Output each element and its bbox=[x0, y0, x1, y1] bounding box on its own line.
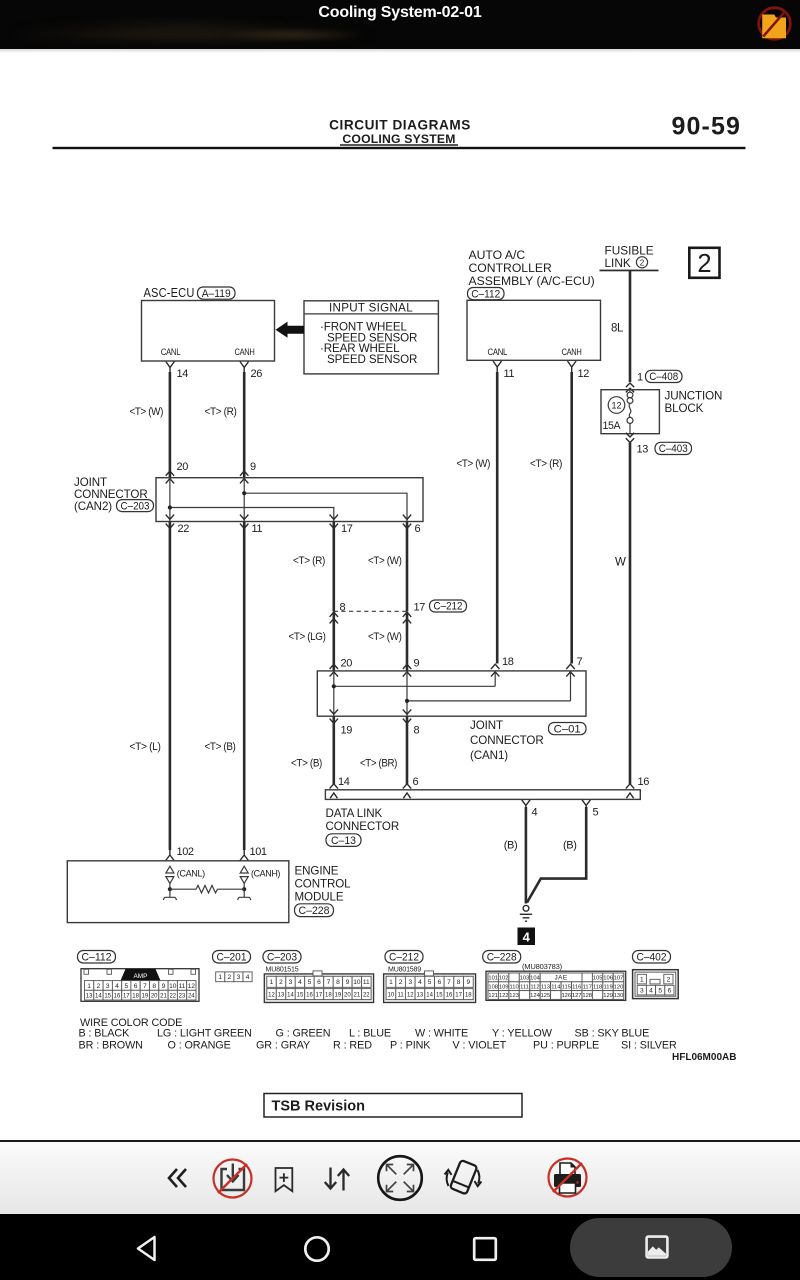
CAN2 internal wire 9 pass-through bbox=[243, 478, 245, 522]
svg-text:CANL: CANL bbox=[488, 346, 508, 357]
connector ref C-408 bbox=[646, 370, 683, 383]
chevrons wire22 out of CAN2 bbox=[166, 515, 174, 529]
svg-text:3: 3 bbox=[640, 988, 644, 995]
junction dot bbox=[405, 699, 409, 703]
svg-text:(CAN1): (CAN1) bbox=[470, 749, 508, 762]
svg-text:P : PINK: P : PINK bbox=[390, 1040, 431, 1052]
svg-text:17: 17 bbox=[414, 601, 426, 613]
input signal arrow bbox=[276, 322, 305, 338]
nav home circle bbox=[303, 1235, 331, 1263]
connector C-228 pinout bbox=[486, 971, 626, 1000]
connector C-112 pin grid bbox=[85, 981, 197, 1000]
svg-text:12: 12 bbox=[268, 992, 275, 998]
svg-text:13: 13 bbox=[86, 993, 93, 999]
svg-text:CANH: CANH bbox=[235, 346, 255, 357]
svg-text:4: 4 bbox=[246, 974, 250, 981]
svg-text:ASSEMBLY (A/C-ECU): ASSEMBLY (A/C-ECU) bbox=[469, 274, 595, 288]
chevrons wire9 into CAN1 bbox=[403, 664, 411, 676]
svg-text:B : BLACK: B : BLACK bbox=[79, 1027, 131, 1039]
svg-text:AUTO A/C: AUTO A/C bbox=[469, 248, 526, 262]
svg-text:17: 17 bbox=[455, 992, 462, 998]
svg-text:12: 12 bbox=[407, 992, 414, 998]
svg-text:19: 19 bbox=[142, 993, 149, 999]
connector C-112 ref label bbox=[78, 951, 116, 964]
svg-text:2: 2 bbox=[279, 979, 283, 986]
svg-text:6: 6 bbox=[413, 776, 419, 788]
toolbar icon sort up-down bbox=[322, 1166, 351, 1192]
toolbar icon no-print bbox=[547, 1157, 588, 1198]
svg-text:2: 2 bbox=[227, 974, 231, 981]
ground ref tag 4 bbox=[518, 928, 536, 946]
svg-text:(CANL): (CANL) bbox=[177, 868, 205, 878]
junction block label bbox=[665, 390, 723, 416]
svg-text:C–01: C–01 bbox=[554, 723, 581, 735]
svg-text:104: 104 bbox=[530, 976, 540, 982]
svg-text:102: 102 bbox=[499, 976, 509, 982]
svg-text:18: 18 bbox=[465, 992, 472, 998]
svg-text:14: 14 bbox=[287, 992, 294, 998]
svg-text:2: 2 bbox=[667, 977, 671, 984]
toolbar icon fit-expand bbox=[376, 1154, 424, 1202]
terminating resistor R bbox=[170, 885, 244, 893]
wire color code line 2 bbox=[79, 1040, 678, 1052]
svg-text:16: 16 bbox=[638, 776, 650, 788]
app bar title bbox=[0, 4, 800, 22]
pin fork 12 bbox=[568, 361, 577, 372]
svg-text:18: 18 bbox=[325, 992, 332, 998]
chevrons wire20 into CAN1 bbox=[330, 664, 338, 676]
svg-text:6: 6 bbox=[668, 988, 672, 995]
svg-text:1: 1 bbox=[270, 979, 274, 986]
connector C-203 ref label bbox=[263, 951, 301, 964]
CAN1 internal bus high bbox=[334, 685, 495, 687]
svg-text:13: 13 bbox=[278, 992, 285, 998]
connector ref C-228 bbox=[295, 904, 334, 917]
svg-text:105: 105 bbox=[593, 976, 603, 982]
svg-text:8: 8 bbox=[414, 725, 420, 737]
svg-text:129: 129 bbox=[603, 993, 613, 999]
svg-text:14: 14 bbox=[338, 776, 350, 788]
svg-text:<T> (W): <T> (W) bbox=[130, 406, 164, 418]
svg-text:12: 12 bbox=[578, 368, 590, 380]
svg-text:117: 117 bbox=[583, 984, 592, 990]
svg-text:9: 9 bbox=[346, 979, 350, 986]
svg-text:(CANH): (CANH) bbox=[251, 868, 280, 878]
svg-text:DATA LINK: DATA LINK bbox=[326, 807, 383, 820]
data link connector label bbox=[326, 807, 400, 833]
svg-text:V : VIOLET: V : VIOLET bbox=[453, 1040, 507, 1052]
wire CAN2 pin6 to C-212 bbox=[406, 522, 409, 612]
svg-text:MU801515: MU801515 bbox=[266, 965, 299, 974]
svg-text:C–228: C–228 bbox=[299, 905, 330, 917]
svg-text:119: 119 bbox=[603, 984, 612, 990]
svg-text:SB : SKY BLUE: SB : SKY BLUE bbox=[575, 1027, 650, 1039]
chevrons wire19 out of CAN1 bbox=[330, 709, 338, 723]
CAN1 internal wire 7 stub bbox=[570, 671, 572, 701]
connector ref C-203 bbox=[117, 500, 154, 513]
ECM CANH internal stub bbox=[238, 889, 251, 900]
svg-text:C–203: C–203 bbox=[267, 951, 297, 963]
svg-text:TSB Revision: TSB Revision bbox=[272, 1099, 365, 1115]
svg-text:21: 21 bbox=[160, 993, 167, 999]
svg-text:15A: 15A bbox=[603, 420, 622, 432]
svg-text:BR : BROWN: BR : BROWN bbox=[79, 1040, 143, 1052]
svg-text:C–203: C–203 bbox=[121, 500, 150, 512]
svg-text:114: 114 bbox=[551, 984, 561, 990]
svg-text:20: 20 bbox=[151, 993, 158, 999]
chevrons wire8 below C-212 bbox=[330, 612, 338, 623]
svg-text:3: 3 bbox=[237, 974, 241, 981]
svg-text:C–403: C–403 bbox=[659, 443, 688, 455]
connector C-112 pinout bbox=[81, 969, 199, 1002]
svg-text:6: 6 bbox=[134, 983, 138, 990]
svg-text:3: 3 bbox=[408, 979, 412, 986]
svg-text:15: 15 bbox=[297, 992, 304, 998]
svg-text:12: 12 bbox=[612, 401, 622, 412]
svg-text:Y : YELLOW: Y : YELLOW bbox=[492, 1027, 553, 1039]
svg-text:106: 106 bbox=[603, 976, 613, 982]
svg-text:8: 8 bbox=[152, 983, 156, 990]
svg-text:4: 4 bbox=[298, 979, 302, 986]
svg-text:21: 21 bbox=[354, 992, 361, 998]
svg-text:<T> (R): <T> (R) bbox=[293, 555, 325, 567]
joint connector CAN2 box bbox=[156, 478, 423, 522]
svg-text:MODULE: MODULE bbox=[295, 890, 344, 903]
wire ASC CANL down-left branch bbox=[169, 522, 172, 851]
chevrons wire8 out of CAN1 bbox=[403, 709, 411, 723]
ground symbol bbox=[520, 905, 532, 921]
svg-text:G : GREEN: G : GREEN bbox=[276, 1027, 331, 1039]
connector C-212 pinout bbox=[384, 971, 476, 1003]
svg-text:ASC-ECU: ASC-ECU bbox=[144, 286, 195, 300]
toolbar icon no-download bbox=[212, 1158, 253, 1199]
svg-text:<T> (BR): <T> (BR) bbox=[360, 757, 397, 769]
svg-text:17: 17 bbox=[341, 523, 353, 535]
svg-text:6: 6 bbox=[437, 979, 441, 986]
svg-text:19: 19 bbox=[335, 992, 342, 998]
svg-text:103: 103 bbox=[520, 976, 530, 982]
engine control module box bbox=[67, 861, 288, 923]
svg-text:17: 17 bbox=[316, 992, 323, 998]
wire CAN1 pin8 to DLC bbox=[406, 716, 409, 784]
DLC internal stub 14 bbox=[330, 793, 337, 798]
chevrons wire7 into CAN1 bbox=[566, 664, 574, 676]
svg-text:<T> (L): <T> (L) bbox=[130, 741, 161, 753]
top app bar bbox=[0, 0, 800, 49]
svg-text:1: 1 bbox=[87, 983, 91, 990]
svg-text:CONNECTOR: CONNECTOR bbox=[326, 820, 400, 833]
pin fork 14 bbox=[166, 362, 175, 373]
svg-text:CANH: CANH bbox=[562, 346, 582, 357]
fusible link bus bar bbox=[600, 270, 659, 272]
connector C-201 ref label bbox=[213, 951, 251, 964]
svg-text:11: 11 bbox=[397, 992, 404, 998]
svg-text:11: 11 bbox=[363, 979, 370, 986]
svg-text:13: 13 bbox=[637, 444, 649, 456]
svg-text:C–212: C–212 bbox=[434, 601, 463, 613]
svg-text:14: 14 bbox=[426, 992, 433, 998]
nav back triangle bbox=[133, 1233, 160, 1264]
junction dot CANH bbox=[242, 887, 246, 891]
toolbar icon rotate-screen bbox=[440, 1155, 486, 1201]
svg-text:COOLING SYSTEM: COOLING SYSTEM bbox=[342, 132, 455, 146]
wire ASC CANH down-left branch bbox=[243, 522, 246, 851]
svg-text:CANL: CANL bbox=[161, 346, 181, 357]
chevron wire14 into DLC bbox=[330, 784, 338, 789]
svg-text:1: 1 bbox=[640, 977, 644, 984]
svg-text:4: 4 bbox=[115, 983, 119, 990]
svg-text:(B): (B) bbox=[504, 840, 517, 852]
connector C-203 pinout bbox=[264, 971, 373, 1003]
wire A/C CANL pin11 down bbox=[496, 372, 499, 664]
svg-text:19: 19 bbox=[341, 725, 353, 737]
fuse symbol bbox=[627, 390, 633, 434]
svg-text:5: 5 bbox=[658, 988, 662, 995]
chevron wire16 into DLC bbox=[626, 784, 634, 789]
ECU U2 box A/C-ECU bbox=[467, 300, 601, 360]
connector C-402 ref label bbox=[633, 951, 671, 964]
ECU U2 label AUTO A/C CONTROLLER ASSEMBLY bbox=[469, 248, 595, 288]
svg-text:2: 2 bbox=[399, 979, 403, 986]
svg-text:7: 7 bbox=[143, 983, 147, 990]
connector ref C-01 bbox=[549, 723, 587, 736]
junction dot bbox=[168, 505, 172, 509]
svg-text:18: 18 bbox=[132, 993, 139, 999]
svg-text:9: 9 bbox=[414, 657, 420, 669]
fuse circled 12 bbox=[608, 397, 625, 414]
svg-text:20: 20 bbox=[344, 992, 351, 998]
svg-text:123: 123 bbox=[509, 993, 519, 999]
joint connector CAN1 label bbox=[470, 719, 544, 762]
connector ref C-403 bbox=[655, 442, 692, 455]
svg-text:4: 4 bbox=[532, 807, 538, 819]
svg-text:<T> (R): <T> (R) bbox=[530, 458, 562, 470]
svg-text:9: 9 bbox=[162, 983, 166, 990]
svg-text:(MU803783): (MU803783) bbox=[522, 962, 562, 971]
junction dot CANL bbox=[168, 887, 172, 891]
toolbar icon back double-chevron bbox=[166, 1166, 190, 1190]
svg-text:C–201: C–201 bbox=[217, 951, 247, 963]
nav pill screenshot icon bbox=[644, 1234, 670, 1260]
svg-text:LG : LIGHT GREEN: LG : LIGHT GREEN bbox=[157, 1027, 252, 1039]
junction dot bbox=[332, 684, 336, 688]
svg-text:(B): (B) bbox=[563, 840, 576, 852]
svg-text:26: 26 bbox=[251, 368, 263, 380]
chevrons wire17 below C-212 bbox=[403, 612, 411, 623]
connector C-402 pinout bbox=[633, 970, 679, 999]
chevrons wire11 out of CAN2 bbox=[240, 515, 248, 529]
page ref box 2 bbox=[689, 248, 719, 278]
svg-text:110: 110 bbox=[509, 984, 518, 990]
svg-text:5: 5 bbox=[308, 979, 312, 986]
svg-text:R : RED: R : RED bbox=[333, 1040, 372, 1052]
ECU U1 box ASC-ECU bbox=[142, 301, 275, 362]
svg-text:109: 109 bbox=[499, 984, 509, 990]
svg-text:10: 10 bbox=[169, 983, 177, 990]
svg-text:90-59: 90-59 bbox=[672, 113, 741, 141]
connector chevrons out of junction block bbox=[626, 433, 634, 443]
ECM pin fork 101 bbox=[240, 850, 248, 861]
svg-text:108: 108 bbox=[488, 984, 498, 990]
svg-text:9: 9 bbox=[466, 979, 470, 986]
svg-text:C–112: C–112 bbox=[82, 951, 112, 963]
svg-text:107: 107 bbox=[614, 976, 624, 982]
svg-text:3: 3 bbox=[106, 983, 110, 990]
svg-text:2: 2 bbox=[697, 250, 711, 278]
CAN2 internal bus low bbox=[170, 508, 334, 522]
svg-text:102: 102 bbox=[177, 846, 194, 858]
svg-text:122: 122 bbox=[499, 993, 509, 999]
svg-text:<T> (W): <T> (W) bbox=[457, 458, 491, 470]
svg-text:22: 22 bbox=[363, 992, 370, 998]
svg-text:JAE: JAE bbox=[554, 975, 567, 982]
svg-text:7: 7 bbox=[577, 656, 583, 668]
joint connector CAN1 box bbox=[317, 671, 586, 716]
svg-text:9: 9 bbox=[250, 461, 256, 473]
svg-text:5: 5 bbox=[593, 807, 599, 819]
chevrons wire9 into CAN2 bbox=[240, 471, 248, 483]
chevrons wire18 into CAN1 bbox=[491, 664, 499, 676]
svg-text:4: 4 bbox=[418, 979, 422, 986]
svg-text:17: 17 bbox=[123, 993, 130, 999]
toolbar icon add-bookmark bbox=[274, 1167, 294, 1193]
svg-text:12: 12 bbox=[188, 983, 196, 990]
svg-text:6: 6 bbox=[317, 979, 321, 986]
svg-text:<T> (W): <T> (W) bbox=[368, 555, 402, 567]
connector ref C-212 bbox=[430, 600, 467, 613]
svg-text:16: 16 bbox=[114, 993, 121, 999]
svg-text:124: 124 bbox=[530, 993, 540, 999]
wire C-212 to CAN1 pin9 bbox=[406, 611, 409, 671]
svg-text:101: 101 bbox=[488, 976, 498, 982]
app bar folder icon (no-bookmark) bbox=[755, 3, 795, 45]
svg-text:A–119: A–119 bbox=[202, 288, 231, 300]
ECM pin fork 102 bbox=[166, 850, 174, 861]
svg-text:2: 2 bbox=[97, 983, 101, 990]
svg-text:INPUT SIGNAL: INPUT SIGNAL bbox=[329, 301, 413, 314]
junction dot bbox=[242, 491, 246, 495]
connector C-212 ref label bbox=[385, 951, 423, 964]
svg-text:LINK: LINK bbox=[605, 256, 631, 270]
wire ASC CANL pin14 to CAN2 bbox=[169, 372, 172, 478]
engine control module label bbox=[295, 865, 352, 904]
svg-text:CIRCUIT DIAGRAMS: CIRCUIT DIAGRAMS bbox=[329, 118, 471, 133]
svg-text:(CAN2): (CAN2) bbox=[74, 500, 112, 513]
CAN2 internal bus high bbox=[244, 493, 407, 521]
svg-text:C–112: C–112 bbox=[471, 288, 500, 300]
DLC pin fork 5 bbox=[582, 800, 590, 809]
svg-text:15: 15 bbox=[436, 992, 443, 998]
svg-text:CONNECTOR: CONNECTOR bbox=[470, 734, 544, 747]
svg-text:10: 10 bbox=[388, 992, 395, 998]
wire DLC pin5 to ground bbox=[527, 807, 586, 903]
svg-text:16: 16 bbox=[306, 992, 313, 998]
connector ref A-119 bbox=[198, 287, 236, 300]
wire color code line 1 bbox=[79, 1027, 650, 1039]
svg-text:121: 121 bbox=[488, 993, 498, 999]
svg-text:11: 11 bbox=[504, 368, 515, 380]
svg-text:C–13: C–13 bbox=[331, 835, 356, 847]
svg-text:PU : PURPLE: PU : PURPLE bbox=[533, 1040, 599, 1052]
svg-text:113: 113 bbox=[541, 984, 550, 990]
svg-text:8: 8 bbox=[457, 979, 461, 986]
wire DLC pin4 to ground bbox=[525, 807, 528, 904]
viewer toolbar bbox=[0, 1140, 800, 1214]
joint connector CAN2 label bbox=[74, 476, 148, 513]
wire ASC CANH pin26 to CAN2 bbox=[243, 372, 246, 478]
svg-text:118: 118 bbox=[593, 984, 602, 990]
connector C-228 ref label bbox=[483, 951, 521, 964]
svg-text:CONTROLLER: CONTROLLER bbox=[469, 261, 552, 275]
connector chevrons into junction block bbox=[626, 383, 634, 392]
svg-text:16: 16 bbox=[446, 992, 453, 998]
svg-text:<T> (LG): <T> (LG) bbox=[289, 631, 326, 643]
android navigation bar bbox=[0, 1214, 800, 1280]
data link connector box bbox=[325, 790, 640, 800]
CAN1 internal wire 20 pass-through bbox=[333, 671, 335, 716]
ECM CANL internal stub bbox=[163, 889, 176, 900]
svg-text:C–408: C–408 bbox=[649, 371, 678, 383]
pin fork 26 bbox=[240, 362, 249, 373]
svg-text:MU801589: MU801589 bbox=[388, 965, 421, 974]
ECM CANH terminal triangles bbox=[240, 866, 248, 889]
CAN1 internal wire 18 stub bbox=[494, 671, 496, 686]
nav overview square bbox=[472, 1236, 498, 1262]
svg-text:11: 11 bbox=[179, 983, 186, 990]
svg-text:127: 127 bbox=[572, 993, 582, 999]
svg-text:1: 1 bbox=[389, 979, 393, 986]
svg-text:7: 7 bbox=[447, 979, 451, 986]
TSB revision box bbox=[264, 1094, 522, 1118]
svg-text:JOINT: JOINT bbox=[470, 719, 503, 732]
svg-text:3: 3 bbox=[289, 979, 293, 986]
svg-text:8: 8 bbox=[336, 979, 340, 986]
wire CAN1 pin19 to DLC bbox=[332, 716, 335, 784]
svg-text:1: 1 bbox=[218, 974, 222, 981]
svg-text:15: 15 bbox=[104, 993, 111, 999]
svg-text:CONTROL: CONTROL bbox=[295, 878, 352, 891]
svg-text:W : WHITE: W : WHITE bbox=[415, 1027, 468, 1039]
svg-text:AMP: AMP bbox=[134, 973, 148, 980]
svg-text:20: 20 bbox=[341, 657, 353, 669]
svg-text:10: 10 bbox=[353, 979, 361, 986]
svg-text:O : ORANGE: O : ORANGE bbox=[168, 1040, 231, 1052]
svg-text:BLOCK: BLOCK bbox=[665, 402, 704, 415]
svg-text:L : BLUE: L : BLUE bbox=[349, 1027, 391, 1039]
svg-text:14: 14 bbox=[95, 993, 102, 999]
svg-text:8L: 8L bbox=[611, 323, 624, 335]
fusible link label bbox=[605, 243, 654, 269]
header rule bbox=[53, 147, 746, 149]
chevron wire6 into DLC bbox=[403, 784, 411, 789]
svg-text:115: 115 bbox=[562, 984, 571, 990]
svg-text:125: 125 bbox=[541, 993, 551, 999]
svg-text:C–228: C–228 bbox=[487, 951, 517, 963]
svg-text:13: 13 bbox=[417, 992, 424, 998]
CAN2 internal wire 20 pass-through bbox=[169, 478, 171, 522]
svg-text:24: 24 bbox=[188, 993, 195, 999]
svg-text:120: 120 bbox=[614, 984, 624, 990]
svg-text:126: 126 bbox=[561, 993, 571, 999]
ECM CANL terminal triangles bbox=[166, 866, 174, 889]
svg-text:<T> (B): <T> (B) bbox=[291, 757, 322, 769]
svg-text:ENGINE: ENGINE bbox=[295, 865, 339, 878]
DLC internal stub 16 bbox=[626, 793, 633, 798]
chevrons wire6 out of CAN2 bbox=[403, 515, 411, 529]
svg-text:HFL06M00AB: HFL06M00AB bbox=[672, 1052, 736, 1063]
svg-text:<T> (B): <T> (B) bbox=[205, 741, 236, 753]
chevrons wire20 into CAN2 bbox=[166, 471, 174, 483]
